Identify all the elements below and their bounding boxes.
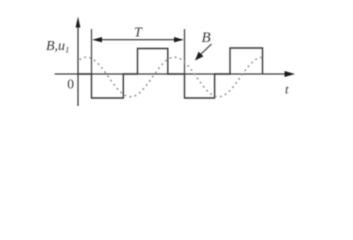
svg-text:B: B <box>202 30 211 46</box>
B pointer arrowhead <box>195 52 203 61</box>
svg-text:0: 0 <box>67 76 74 91</box>
y-axis arrowhead <box>76 17 81 28</box>
T-span left tick <box>91 29 93 74</box>
T-span double arrow line <box>94 39 182 41</box>
x-axis <box>55 73 288 75</box>
T-span right arrowhead <box>174 37 184 42</box>
svg-text:T: T <box>134 25 143 40</box>
T-span left arrowhead <box>92 37 102 42</box>
square wave u1 <box>78 48 263 98</box>
T-span right tick <box>184 29 186 74</box>
dotted sine B <box>80 57 262 96</box>
x-axis arrowhead <box>285 71 296 77</box>
y-axis <box>77 25 79 106</box>
svg-text:B,u1: B,u1 <box>46 39 69 55</box>
B pointer arrow line <box>200 44 212 56</box>
svg-text:t: t <box>285 81 289 96</box>
